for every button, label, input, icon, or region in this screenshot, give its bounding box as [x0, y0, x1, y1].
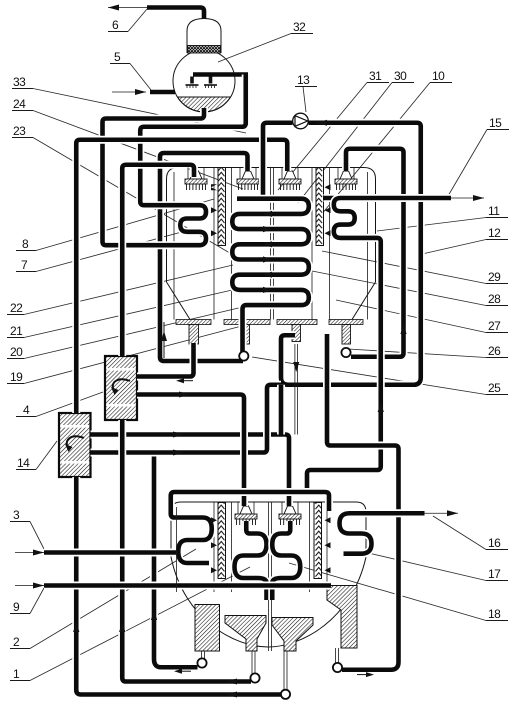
leader 10 — [321, 83, 430, 216]
upper tube plate (hatched) — [176, 320, 363, 325]
drain pot 1 — [197, 658, 206, 667]
steam drum 32 shell — [173, 19, 235, 113]
svg-text:19: 19 — [10, 370, 23, 384]
label 14 — [16, 456, 36, 470]
svg-text:32: 32 — [293, 20, 306, 34]
leader 16 — [433, 516, 486, 550]
svg-text:22: 22 — [10, 301, 23, 315]
svg-text:29: 29 — [488, 270, 501, 284]
svg-text:24: 24 — [13, 97, 26, 111]
burner U1 (upper, x=196) — [185, 171, 207, 190]
leader 21 — [24, 288, 241, 338]
label 24 — [12, 97, 33, 111]
label 30 — [392, 69, 414, 83]
label 6 — [108, 18, 128, 32]
upper heat exchanger shell — [167, 168, 376, 320]
leg3 thin drain pipe — [293, 344, 299, 435]
svg-text:4: 4 — [23, 403, 30, 417]
upper right header column — [316, 168, 324, 246]
svg-text:15: 15 — [489, 116, 502, 130]
lower center-left coil — [235, 521, 267, 600]
label 32 — [291, 20, 313, 34]
pipe: box4 riser to burner U1 — [122, 165, 194, 356]
svg-text:18: 18 — [488, 607, 501, 621]
drain elbow fitting (upper, under leg2) — [239, 351, 248, 360]
lower right header column — [314, 503, 322, 579]
svg-text:20: 20 — [10, 345, 23, 359]
svg-text:11: 11 — [488, 204, 500, 218]
label 15 — [487, 116, 509, 130]
drain pot 4 — [333, 663, 342, 672]
label 31 — [367, 69, 389, 83]
svg-text:33: 33 — [13, 75, 26, 89]
svg-text:16: 16 — [488, 536, 501, 550]
pipe: drum internal distributor — [193, 72, 248, 77]
svg-text:23: 23 — [13, 124, 26, 138]
leader 9 — [30, 588, 44, 614]
lower funnel 3 (hatched) — [272, 618, 313, 652]
burner L2 (lower, x=290) — [279, 506, 301, 525]
pipe: pump discharge big loop — [281, 120, 421, 385]
leader 24 — [33, 111, 243, 190]
leader 27 — [336, 300, 486, 333]
svg-text:2: 2 — [13, 635, 20, 649]
leader 6 — [128, 9, 147, 32]
pipe: riser x=76 to burner U3 — [76, 140, 287, 413]
burner duct lines — [177, 168, 355, 593]
leader 29 — [322, 251, 486, 284]
label 3 — [10, 508, 30, 522]
upper right coil and exit staircase to pot4 line — [307, 198, 451, 489]
header flow arrows lower — [211, 517, 331, 573]
pipe: box4 line2 to burner L1 — [137, 392, 244, 507]
svg-text:10: 10 — [432, 69, 445, 83]
label 22 — [7, 301, 24, 315]
label 1 — [10, 667, 30, 681]
leader 22 — [24, 265, 233, 315]
upper left header column — [218, 168, 226, 246]
label 12 — [486, 226, 508, 240]
drum nozzle A — [186, 77, 199, 89]
pipe: pump suction from coil — [263, 123, 293, 199]
leader 12 — [422, 240, 486, 255]
leader 31 — [278, 83, 367, 191]
misc up arrows on verticals — [73, 610, 157, 632]
lower funnel block 1 (hatched) — [195, 605, 220, 652]
leader 14 — [36, 441, 57, 470]
svg-text:26: 26 — [488, 344, 501, 358]
pipe: pot B riser to burner U4 — [346, 149, 407, 357]
pipe: lower exchanger top feed and lower left coil — [171, 492, 329, 563]
pipe: pot1 riser from line2 — [154, 453, 198, 674]
upper internal baffle walls — [174, 168, 368, 320]
pipe: drum top vent to arrow 6 — [108, 5, 204, 19]
leader 20 — [24, 306, 247, 359]
label 17 — [486, 567, 508, 581]
leader 17 — [360, 551, 486, 581]
lower funnel block 4 (hatched) — [327, 586, 357, 649]
label 29 — [486, 270, 508, 284]
label 16 — [486, 536, 508, 550]
drain pot 2 — [250, 673, 259, 682]
upper central serpentine coil — [232, 199, 308, 353]
leader 8 — [36, 199, 214, 251]
funnel drain stems — [202, 648, 339, 690]
svg-text:30: 30 — [394, 69, 407, 83]
blower box 14 (hatched) — [59, 413, 91, 477]
svg-text:5: 5 — [114, 50, 121, 64]
leader 7 — [36, 230, 189, 272]
leader 15 — [448, 130, 487, 197]
leader 3 — [30, 522, 44, 550]
pipe: coil drain riser to burner U2 bridge — [160, 153, 248, 361]
label 33 — [12, 75, 33, 89]
leader 28 — [307, 270, 486, 306]
leader 13 — [303, 87, 306, 113]
pipe: drum circulation loop with left evaporator coil — [103, 75, 246, 246]
svg-text:13: 13 — [297, 73, 310, 87]
lower center-right coil — [272, 521, 300, 600]
svg-text:8: 8 — [22, 237, 29, 251]
svg-text:12: 12 — [488, 226, 501, 240]
burner U4 (upper, x=346) — [335, 171, 357, 190]
label 8 — [16, 237, 36, 251]
label 2 — [10, 635, 30, 649]
svg-text:27: 27 — [488, 319, 501, 333]
pipe: box14 drop to pot3 line — [76, 477, 281, 698]
leader 1 — [30, 567, 250, 681]
label 5 — [110, 50, 130, 64]
lower funnel 2 (hatched) — [225, 616, 266, 652]
svg-text:17: 17 — [488, 567, 501, 581]
label 11 — [486, 204, 508, 218]
label 21 — [7, 324, 24, 338]
leader 19 — [24, 323, 253, 384]
leader 23 — [33, 138, 240, 260]
burner U3 (upper, x=290) — [279, 171, 301, 190]
svg-text:1: 1 — [13, 667, 20, 681]
leader 2 — [30, 549, 196, 649]
label 13 — [295, 73, 317, 87]
label 19 — [7, 370, 24, 384]
svg-text:3: 3 — [13, 508, 20, 522]
coil flow arrows (central coil) — [263, 211, 272, 293]
lower left header column — [218, 503, 226, 579]
svg-text:7: 7 — [21, 258, 28, 272]
pipe: box14 line1 to burner L2 — [91, 432, 290, 507]
svg-text:31: 31 — [369, 69, 382, 83]
label 27 — [486, 319, 508, 333]
label 18 — [486, 607, 508, 621]
pipe: box4 line1 leg1 drain — [137, 343, 194, 383]
pipe: box4 drop to pot2 line — [122, 420, 251, 685]
header flow arrows upper — [211, 184, 331, 236]
pipe: drop x=281 from header line to line1 — [277, 385, 285, 435]
label 23 — [12, 124, 33, 138]
leader 26 — [348, 349, 486, 358]
burner U2 (upper, x=248) — [237, 171, 259, 190]
drain pot B (upper, under leg4) — [341, 348, 350, 357]
label 7 — [16, 258, 36, 272]
leader 4 — [36, 392, 103, 417]
label 26 — [486, 344, 508, 358]
pipe: steam outlet 15 — [324, 195, 485, 201]
svg-text:9: 9 — [13, 600, 20, 614]
pipe: box14 line2 riser x=267 — [91, 385, 282, 456]
svg-text:25: 25 — [488, 381, 501, 395]
burner L1 (lower, x=246) — [235, 506, 257, 525]
feed pipe 3 — [15, 550, 176, 556]
pipe: staircase from upper plate to pot4 line — [327, 334, 399, 677]
leader 33 — [33, 89, 246, 134]
blower box 4 (hatched) — [105, 356, 137, 420]
leader 32 — [218, 34, 291, 63]
svg-text:6: 6 — [112, 18, 119, 32]
leader 18 — [289, 563, 486, 621]
label 25 — [486, 381, 508, 395]
lower right coil and outlet 16 — [340, 510, 459, 553]
vessel floor drain line — [161, 322, 167, 358]
label 4 — [16, 403, 36, 417]
label 20 — [7, 345, 24, 359]
svg-text:28: 28 — [488, 292, 501, 306]
label 10 — [430, 69, 452, 83]
circulating pump 13 — [293, 113, 309, 129]
label 9 — [10, 600, 30, 614]
lower internal baffle walls — [214, 503, 327, 652]
leader 30 — [298, 83, 392, 204]
drum nozzle B — [204, 77, 217, 89]
leader 25 — [252, 357, 486, 395]
plate legs (hatched collars) — [189, 325, 351, 345]
leader 11 — [377, 218, 486, 232]
lower heat exchanger shell — [171, 502, 366, 651]
label 28 — [486, 292, 508, 306]
leader 5 — [130, 64, 151, 91]
pipe: drum feed 5 — [112, 89, 175, 95]
drain pot 3 — [281, 690, 290, 699]
svg-text:21: 21 — [10, 324, 23, 338]
feed pipe 9 — [15, 583, 331, 589]
drum neck crosshatch band — [188, 46, 221, 54]
drum bottom hatch cap — [178, 97, 231, 112]
svg-text:14: 14 — [17, 456, 30, 470]
